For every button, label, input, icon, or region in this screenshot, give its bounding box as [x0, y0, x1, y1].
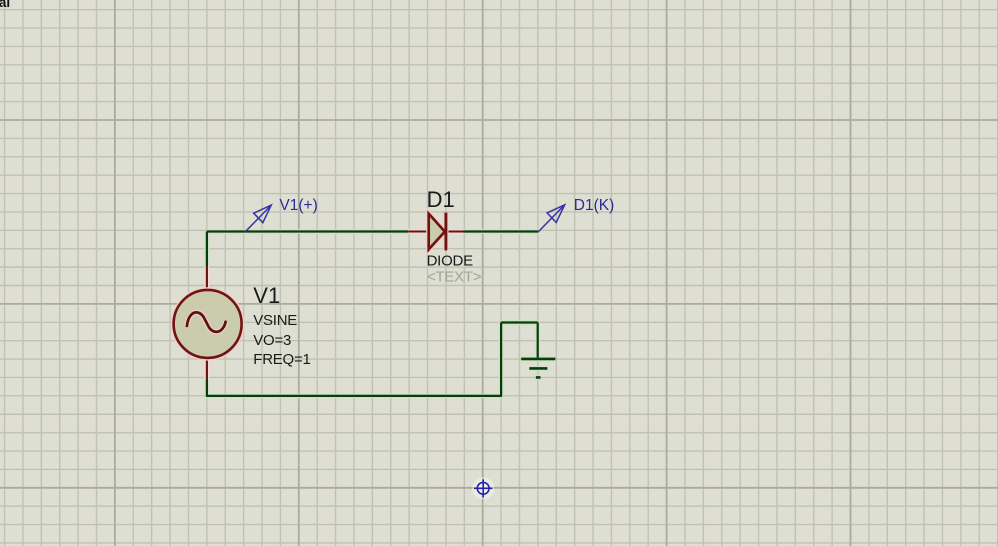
svg-text:FREQ=1: FREQ=1 [253, 351, 310, 368]
svg-text:D1: D1 [427, 187, 455, 212]
svg-text:<TEXT>: <TEXT> [427, 269, 482, 286]
svg-text:V1: V1 [253, 283, 280, 308]
svg-text:VO=3: VO=3 [253, 332, 291, 349]
svg-text:VSINE: VSINE [253, 312, 297, 329]
svg-text:DIODE: DIODE [427, 253, 474, 270]
svg-text:V1(+): V1(+) [279, 197, 317, 214]
svg-text:al: al [0, 0, 10, 10]
svg-text:D1(K): D1(K) [574, 197, 614, 214]
